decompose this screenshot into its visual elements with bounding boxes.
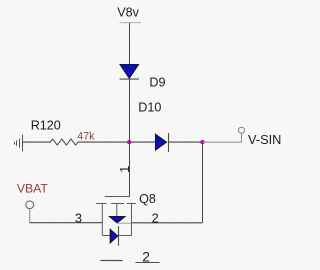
Q8 body diode <box>110 226 118 246</box>
svg-text:3: 3 <box>75 210 82 225</box>
svg-text:D9: D9 <box>149 76 165 90</box>
svg-text:D10: D10 <box>138 100 161 114</box>
diode D10 <box>156 133 169 152</box>
power net label V8v <box>117 5 139 19</box>
wire D9 to junction <box>129 79 131 142</box>
junction node at gate <box>127 140 131 144</box>
svg-text:47k: 47k <box>77 130 95 142</box>
value 47k <box>77 130 95 142</box>
transistor Q8 <box>96 197 136 236</box>
label D9 <box>149 76 165 90</box>
terminal VBAT <box>26 201 34 223</box>
diode D9 <box>120 65 139 80</box>
label R120 <box>31 118 61 132</box>
cropped pin number 2 with underline <box>136 249 160 264</box>
pin number 2 <box>152 210 159 225</box>
cropped power bar at bottom <box>100 260 122 262</box>
svg-text:1: 1 <box>117 166 132 173</box>
wire ground to resistor <box>23 141 51 143</box>
pin number 3 <box>75 210 82 225</box>
svg-text:R120: R120 <box>31 118 61 132</box>
wire arrow tip to right contact <box>117 222 131 224</box>
svg-text:V8v: V8v <box>117 5 139 19</box>
wire VBAT to Q8 pin 3 <box>30 222 103 224</box>
wire resistor to D10 <box>78 141 155 143</box>
label VBAT <box>17 182 48 196</box>
pin number 1 <box>117 166 132 173</box>
label Q8 <box>139 192 156 206</box>
label V-SIN <box>248 132 281 147</box>
wire V8v to D9 <box>129 23 131 65</box>
wire Q8 pin 2 to right branch <box>132 222 203 224</box>
svg-text:VBAT: VBAT <box>17 182 48 196</box>
label D10 <box>138 100 161 114</box>
wire V-SIN node down to Q8 pin 2 <box>202 142 204 223</box>
junction node at V-SIN branch <box>200 140 204 144</box>
wire D10 to node <box>169 141 203 143</box>
resistor R120 <box>50 139 78 145</box>
wire node to V-SIN terminal <box>203 133 242 142</box>
svg-text:V-SIN: V-SIN <box>248 132 281 147</box>
ground <box>15 135 23 152</box>
wire junction to Q8 gate pin <box>129 142 131 196</box>
terminal V-SIN <box>239 127 245 133</box>
power symbol bar <box>120 22 142 24</box>
svg-text:Q8: Q8 <box>139 192 156 206</box>
Q8 arrow <box>110 217 125 223</box>
svg-text:2: 2 <box>152 210 159 225</box>
